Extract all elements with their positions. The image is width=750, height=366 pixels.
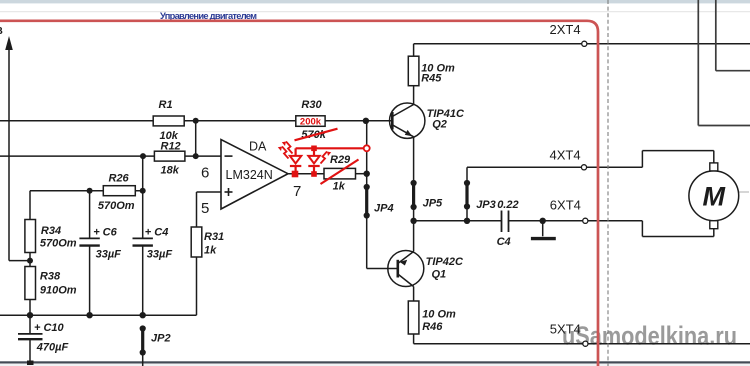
svg-text:6: 6 xyxy=(201,165,209,182)
svg-text:5XT4: 5XT4 xyxy=(550,322,581,337)
svg-text:Q2: Q2 xyxy=(432,119,447,131)
svg-text:JP5: JP5 xyxy=(423,197,443,209)
svg-text:R38: R38 xyxy=(40,271,61,283)
svg-text:R29: R29 xyxy=(330,154,351,166)
svg-text:4XT4: 4XT4 xyxy=(550,148,581,163)
svg-text:33µF: 33µF xyxy=(147,248,173,260)
svg-text:Управление двигателем: Управление двигателем xyxy=(160,11,257,21)
svg-text:570Om: 570Om xyxy=(98,200,135,212)
svg-text:7: 7 xyxy=(293,183,301,200)
svg-text:+ C6: + C6 xyxy=(93,227,117,239)
svg-text:33µF: 33µF xyxy=(96,248,122,260)
svg-text:5: 5 xyxy=(201,200,209,217)
svg-text:0.22: 0.22 xyxy=(497,199,518,211)
svg-text:570Om: 570Om xyxy=(40,238,77,250)
svg-text:JP2: JP2 xyxy=(151,333,171,345)
svg-text:Q1: Q1 xyxy=(432,268,447,280)
svg-text:TIP42C: TIP42C xyxy=(426,256,464,268)
svg-text:LM324N: LM324N xyxy=(226,168,273,182)
svg-text:R1: R1 xyxy=(159,99,173,111)
svg-text:2XT4: 2XT4 xyxy=(550,22,581,37)
svg-text:В: В xyxy=(0,26,3,37)
svg-text:+ C10: + C10 xyxy=(34,322,65,334)
svg-text:1k: 1k xyxy=(204,244,217,256)
svg-text:200k: 200k xyxy=(300,116,322,127)
svg-text:M: M xyxy=(703,182,726,212)
svg-text:R26: R26 xyxy=(109,172,130,184)
svg-text:1k: 1k xyxy=(333,181,346,193)
svg-text:R31: R31 xyxy=(204,231,224,243)
svg-text:18k: 18k xyxy=(161,165,180,177)
svg-text:R12: R12 xyxy=(161,140,181,152)
svg-text:6XT4: 6XT4 xyxy=(550,197,581,212)
svg-text:uSamodelkina.ru: uSamodelkina.ru xyxy=(562,321,737,351)
svg-text:R30: R30 xyxy=(301,99,322,111)
svg-text:DA: DA xyxy=(249,140,267,154)
svg-text:+ C4: + C4 xyxy=(145,227,169,239)
svg-text:910Om: 910Om xyxy=(40,284,77,296)
svg-text:C4: C4 xyxy=(497,236,511,248)
svg-text:JP4: JP4 xyxy=(374,203,394,215)
svg-text:10 Om: 10 Om xyxy=(422,308,456,320)
svg-text:470µF: 470µF xyxy=(36,341,69,353)
svg-text:R34: R34 xyxy=(41,225,61,237)
svg-text:R46: R46 xyxy=(422,321,443,333)
svg-text:R45: R45 xyxy=(421,73,442,85)
svg-text:JP3: JP3 xyxy=(476,199,496,211)
